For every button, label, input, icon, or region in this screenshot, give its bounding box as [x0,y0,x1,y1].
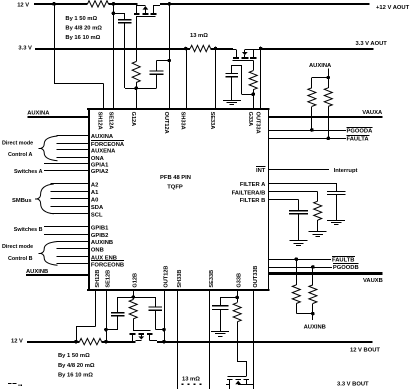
svg-text:FILTER B: FILTER B [240,198,266,204]
svg-text:FORCEONB: FORCEONB [91,262,124,268]
svg-text:Control B: Control B [8,256,33,262]
svg-text:Direct mode: Direct mode [2,244,33,250]
svg-text:SH33A: SH33A [180,112,186,130]
svg-text:VAUXA: VAUXA [362,110,383,116]
svg-text:Switches A: Switches A [14,169,43,175]
svg-text:ONB: ONB [91,247,104,253]
svg-text:PGOODA: PGOODA [347,128,374,134]
svg-text:FAULTA: FAULTA [347,137,370,143]
svg-text:12 V: 12 V [17,2,29,8]
svg-text:OUT12B: OUT12B [163,266,169,288]
svg-text:INT: INT [256,168,266,174]
svg-text:By 16 10 mΩ: By 16 10 mΩ [65,35,100,41]
svg-text:AUXINA: AUXINA [309,63,332,69]
svg-text:SMBus: SMBus [12,198,32,204]
svg-text:FAILTERA/B: FAILTERA/B [232,191,266,197]
svg-text:Control A: Control A [8,152,32,158]
svg-text:SCL: SCL [91,212,103,218]
svg-text:PGOODB: PGOODB [333,265,359,271]
svg-text:SDA: SDA [91,205,104,211]
svg-text:A0: A0 [91,197,98,203]
svg-text:GPIB1: GPIB1 [91,225,109,231]
svg-text:SE33A: SE33A [209,112,215,130]
svg-text:AUXINB: AUXINB [91,240,113,246]
svg-text:FAULTB: FAULTB [332,257,354,263]
svg-text:By 4/8 20 mΩ: By 4/8 20 mΩ [65,26,102,32]
svg-text:GPIA2: GPIA2 [91,169,108,175]
svg-text:13 mΩ: 13 mΩ [190,33,208,39]
svg-text:Direct mode: Direct mode [2,140,33,146]
svg-text:SE33B: SE33B [209,270,215,288]
svg-text:12 V BOUT: 12 V BOUT [350,348,380,354]
svg-text:VAUXB: VAUXB [363,278,383,284]
svg-text:OUT12A: OUT12A [163,112,169,134]
svg-text:+12 V AOUT: +12 V AOUT [376,5,410,11]
svg-text:AUXINB: AUXINB [304,325,326,331]
svg-text:FORCEONA: FORCEONA [91,142,125,148]
svg-text:G33B: G33B [237,273,243,288]
svg-text:3.3 V BOUT: 3.3 V BOUT [337,381,369,387]
svg-text:AUXINA: AUXINA [91,134,114,140]
svg-text:Switches B: Switches B [14,227,43,233]
svg-text:SH12B: SH12B [95,270,101,288]
svg-text:OUT33B: OUT33B [253,266,259,288]
svg-text:SE12B: SE12B [105,270,111,288]
svg-text:GPIB2: GPIB2 [91,233,108,239]
svg-text:G12B: G12B [133,273,139,288]
svg-text:By 16 10 mΩ: By 16 10 mΩ [58,373,93,379]
svg-text:OUT33A: OUT33A [255,112,261,134]
svg-text:SH12A: SH12A [97,112,103,130]
svg-text:G33A: G33A [247,112,253,127]
svg-text:By 4/8 20 mΩ: By 4/8 20 mΩ [58,363,95,369]
svg-text:ONA: ONA [91,156,105,162]
svg-text:A1: A1 [91,190,99,196]
svg-text:AUXINA: AUXINA [27,110,50,116]
svg-text:By 1 50 mΩ: By 1 50 mΩ [58,353,90,359]
svg-text:GPIA1: GPIA1 [91,162,109,168]
svg-text:SE12A: SE12A [108,112,114,130]
svg-text:3.3 V AOUT: 3.3 V AOUT [356,41,388,47]
svg-text:13 mΩ: 13 mΩ [182,377,200,383]
svg-text:TQFP: TQFP [167,184,183,190]
svg-text:AUXENA: AUXENA [91,148,116,154]
svg-text:G12A: G12A [130,112,136,127]
svg-text:FILTER A: FILTER A [240,182,266,188]
svg-text:A2: A2 [91,182,98,188]
svg-text:SH33B: SH33B [177,270,183,288]
svg-text:By 1 50 mΩ: By 1 50 mΩ [65,16,97,22]
svg-text:Interrupt: Interrupt [334,168,358,174]
svg-text:12 V: 12 V [11,338,23,344]
svg-text:PFB 48 PIN: PFB 48 PIN [160,175,191,181]
svg-text:3.3 V: 3.3 V [18,46,32,52]
